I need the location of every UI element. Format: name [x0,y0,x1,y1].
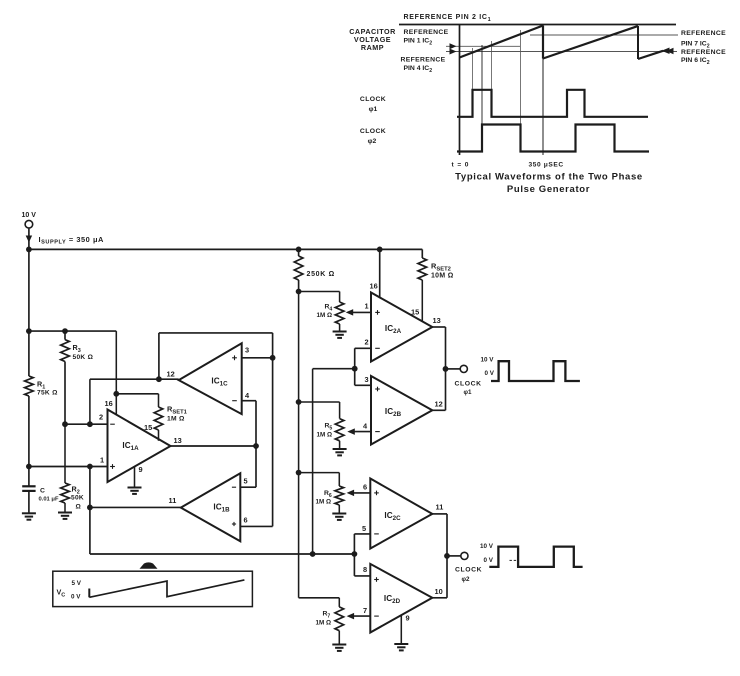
resistor R2 [61,424,70,512]
wire: IC1C feedback top line [159,333,273,379]
wire: bias chain vertical [298,292,300,598]
wire: marker vertical at phi1 rise [472,48,474,117]
label pin 11 of IC2C [436,503,444,512]
svg-text:12: 12 [167,370,175,379]
capacitor voltage ramp trace [460,26,670,60]
terminal: CLOCK phi1 output [460,365,467,372]
plus mark IC2D [374,577,379,582]
minus mark IC2A [375,347,380,349]
wire: ramp bus vertical (pin1 to pin11 to feedback) [89,467,91,555]
svg-text:75K Ω: 75K Ω [37,390,58,397]
resistor R1 [25,376,34,396]
wire: pin 1 line [29,466,108,468]
svg-text:REFERENCE: REFERENCE [401,57,446,64]
label pin 15 of IC2A [411,308,419,317]
ground below R4 [333,332,347,338]
label pin 12 of IC2B [435,400,443,409]
op-amp IC2A [371,293,432,362]
plus mark IC2B [375,387,380,392]
wire: pin 5 line [240,486,256,488]
label 10 V / 0 V (phi2) [480,543,494,564]
svg-text:φ1: φ1 [369,106,378,113]
clock phi1 waveform trace [457,90,648,117]
op-amp IC1A [108,410,171,483]
label IC1A [122,441,139,452]
label CAPACITOR VOLTAGE RAMP [349,27,396,52]
capacitor C [22,486,35,513]
junction: pin1 line at left rail [26,464,32,470]
svg-text:10 V: 10 V [22,212,37,219]
label 0 V [71,594,81,601]
svg-text:3: 3 [245,346,249,355]
label pin 13 of IC1A [174,436,182,445]
op-amp IC1B [181,473,241,541]
svg-text:1: 1 [100,456,104,465]
svg-text:t = 0: t = 0 [452,162,470,169]
plus mark IC2A [375,310,380,315]
wire: R4 top line [299,291,340,293]
node: reference pin 1 IC2 level line with arrow [446,43,520,49]
label pin 5 of IC1B [244,477,248,486]
minus mark IC2B [375,431,380,433]
label VC [57,588,66,599]
wire: pin12 net down to pin2 line [89,379,91,424]
label CLOCK phi1 [455,381,482,397]
svg-text:6: 6 [244,516,248,525]
svg-text:0 V: 0 V [485,370,495,377]
wire: pin 6 line [240,525,272,527]
wire: pin 10 output of IC2D [432,597,447,599]
wire: phi2 terminal stub [447,555,461,557]
wire: pin 8 line of IC2D [354,554,370,576]
wire: pin 11 input line [90,506,181,508]
label 10 V / 0 V (phi1) [481,357,495,378]
label CLOCK phi2 [455,567,482,584]
resistor RSET1 [154,394,163,441]
wire: pin 1 wiper arrow of R4 [346,309,371,316]
svg-text:5 V: 5 V [72,580,82,587]
svg-text:9: 9 [406,614,410,623]
junction on rail at 250K [296,247,302,253]
label pin 13 of IC2A [433,316,441,325]
junction: pin 11 tie [87,505,93,511]
resistor R4 [335,292,344,332]
label R7 1M [316,611,332,627]
wire: pin 6 wiper arrow of R6 [347,490,371,497]
junction on rail at left column [26,247,32,253]
label REFERENCE PIN 2 IC1 [404,14,492,23]
label R3 50K [73,343,94,361]
node: 0V level dash (phi2 sketch) [510,559,518,561]
wire: marker vertical at phi2 rise [481,45,483,152]
wire: pin 3 output [242,357,273,359]
svg-text:1: 1 [365,302,369,311]
terminal: 10V input [25,220,33,228]
label REFERENCE PIN 6 IC2 [681,49,726,66]
ground below R2 [58,513,72,519]
node: reference pin 7 IC2 level line [530,34,678,36]
svg-text:12: 12 [435,400,443,409]
wire: R5 top line [299,401,340,403]
svg-text:φ1: φ1 [464,389,473,396]
resistor R7 [335,598,344,645]
junction: R6 tap [296,470,302,476]
wire: phi1 output column [445,327,447,410]
wire: pin 4 line [242,401,256,488]
arrow marker pointing up at ramp bus [140,562,158,568]
svg-text:1M Ω: 1M Ω [317,432,333,439]
op-amp IC2C [370,479,432,549]
wire: R3 node line [29,330,116,332]
label t = 0 [452,162,470,169]
wire: pin 2 line [65,423,108,425]
label IC2C [384,511,401,522]
wire: phi1 terminal stub [446,368,461,370]
wire: pin 9 stub [134,466,136,487]
label CLOCK phi2 (waveform) [360,128,386,145]
plus mark IC2C [374,491,379,496]
label pin 7 of IC2D [363,606,367,615]
junction: phi1 output node [443,366,449,372]
svg-text:0.01 μF: 0.01 μF [39,497,59,503]
svg-text:50K: 50K [71,495,84,502]
junction: R3 bottom / pin2 [62,421,68,427]
ground below R5 [333,449,347,455]
svg-text:1M Ω: 1M Ω [317,312,333,319]
wire: pins 2-3 node to bus [313,369,355,554]
clock phi2 waveform trace [457,125,649,152]
svg-text:CLOCK: CLOCK [455,381,482,388]
junction: phi2 output node [444,553,450,559]
svg-text:11: 11 [169,496,177,505]
clock phi1 output mini waveform [491,361,580,381]
svg-text:2: 2 [365,338,369,347]
label CLOCK phi1 (waveform) [360,96,386,113]
label R6 1M [316,490,332,506]
svg-text:1M Ω: 1M Ω [316,620,332,627]
ground at IC1A pin 9 [128,488,142,494]
label R2 50K [71,485,84,511]
label pin 12 of IC1C [167,370,175,379]
svg-text:0 V: 0 V [71,594,81,601]
plus mark IC1A [110,464,115,469]
resistor R3 [61,331,70,424]
label IC2D [384,594,401,605]
label pin 9 of IC2D [406,614,410,623]
wire: pin 3 line of IC2B [355,384,371,386]
svg-text:6: 6 [363,483,367,492]
wire: t=0 marker vertical [459,25,461,156]
svg-text:Pulse Generator: Pulse Generator [507,184,590,195]
wire: pin 13 output of IC2A [432,326,445,328]
junction: R5 tap [296,399,302,405]
clock phi2 output mini waveform [489,547,582,567]
resistor R6 [335,473,344,514]
svg-text:11: 11 [436,503,444,512]
svg-text:0 V: 0 V [484,557,494,564]
svg-text:10 V: 10 V [481,357,495,364]
svg-text:2: 2 [99,413,103,422]
ground below C [22,513,36,519]
label pin 1 of IC2A [365,302,369,311]
svg-text:REFERENCE: REFERENCE [681,49,726,56]
node: reference pin 4 / pin 6 IC2 level line with arrows [446,48,677,55]
label REFERENCE PIN 1 IC2 [404,29,449,46]
label pin 4 of IC2B [363,422,368,431]
wire: R3 node down-leg crossing pin12 line [115,331,117,394]
svg-text:16: 16 [370,282,378,291]
wire: marker vertical at phi2 fall [520,30,522,152]
label 5 V [72,580,82,587]
wire: pin 4 wiper arrow of R5 [347,428,371,435]
wire: pin 11 output of IC2C [432,513,447,515]
label REFERENCE PIN 4 IC2 [401,57,446,74]
svg-text:16: 16 [105,399,113,408]
label pin 8 of IC2D [363,565,367,574]
svg-text:7: 7 [363,606,367,615]
junction: pin4/pin13/pin5 tie [253,443,259,449]
ground below R7 [332,645,346,651]
wire: pin 2 line of IC2A [355,347,371,349]
resistor R5 [335,402,344,449]
svg-text:5: 5 [244,477,248,486]
op-amp IC2B [371,376,432,445]
svg-text:8: 8 [363,565,367,574]
box: VC waveform inset [53,571,253,606]
junction: bus to pins 5-8 [352,551,358,557]
svg-text:φ2: φ2 [368,138,377,145]
label pin 5 of IC2C [362,524,366,533]
wire: R1 to C node [28,396,30,486]
ground at IC2D pin 9 [394,644,408,650]
svg-text:13: 13 [174,436,182,445]
wire: marker vertical at phi1 fall [491,41,493,117]
label pin 2 of IC1A [99,413,103,422]
minus mark IC2D [374,615,379,617]
wire: phi2 output column [446,514,448,598]
junction: pin2/pin12 tie [87,421,93,427]
svg-text:13: 13 [433,316,441,325]
minus mark IC1A [110,423,115,425]
label IC2A [385,324,402,335]
label pin 11 of IC1B [169,496,177,505]
svg-text:CLOCK: CLOCK [360,96,386,103]
label pin 6 of IC1B [244,516,248,525]
junction: bus tie at feedback line [310,551,316,557]
junction: R3/IC1C node on left rail [26,328,32,334]
VC sawtooth trace [89,580,244,597]
svg-text:Typical Waveforms of the Two P: Typical Waveforms of the Two Phase [455,172,643,183]
svg-text:1M Ω: 1M Ω [316,499,332,506]
label 10 V [22,212,37,219]
label pin 4 of IC1C [245,391,250,400]
label pin 2 of IC2A [365,338,369,347]
plus mark IC1B [232,522,236,526]
label 250K [307,271,336,278]
label C 0.01uF [39,488,59,503]
label REFERENCE PIN 7 IC2 [681,30,726,49]
svg-text:φ2: φ2 [462,576,471,583]
svg-text:REFERENCE: REFERENCE [681,30,726,37]
wire: pin 13 output line [171,445,257,447]
wire: pin 12 input line [90,378,179,380]
junction: R4 tap [296,289,302,295]
label R1 75K [37,380,58,397]
svg-text:350 μSEC: 350 μSEC [529,162,564,169]
wire: pin 16 stub into IC1A [115,394,117,415]
label pin 6 of IC2C [363,483,367,492]
wire: pin3 column (feedback / pin6 tie) [272,333,274,527]
svg-text:9: 9 [139,465,143,474]
svg-text:250K Ω: 250K Ω [307,271,336,278]
label pin 3 of IC1C [245,346,249,355]
svg-text:Ω: Ω [76,504,82,511]
svg-text:5: 5 [362,524,366,533]
label pin 3 of IC2B [365,375,369,384]
label IC2B [385,407,402,418]
wire: R6 top line [299,472,340,474]
label pin 16 of IC1A [105,399,113,408]
junction: feedback to pin 12 [156,376,162,382]
minus mark IC2C [374,533,379,535]
junction on rail at IC2A pin16 [377,247,383,253]
wire: pin16/RSET1 top line [116,393,158,395]
label 350 uSEC [529,162,564,169]
junction: pin16 node [113,391,119,397]
junction: pins 2-3 node [352,366,358,372]
svg-text:CLOCK: CLOCK [455,567,482,574]
label pin 10 of IC2D [435,587,443,596]
terminal: CLOCK phi2 output [461,552,468,559]
wire: +10V supply rail [29,248,422,250]
junction: pin1 / ramp bus [87,464,93,470]
op-amp IC1C [179,343,242,414]
svg-text:10M Ω: 10M Ω [431,273,454,280]
wire: 350usec marker vertical [542,26,544,156]
wire: pin 9 stub of IC2D [400,615,402,644]
svg-text:RAMP: RAMP [361,43,384,52]
label IC1C [211,377,228,388]
svg-text:1M Ω: 1M Ω [167,416,185,423]
svg-text:10: 10 [435,587,443,596]
label pin 16 of IC2A [370,282,378,291]
wire: left rail down to R1 [28,249,30,376]
plus mark IC1C [232,355,237,360]
wire: pin 12 output of IC2B [432,409,445,411]
label IC1B [213,503,230,514]
label R5 1M [317,423,333,439]
title: Pulse Generator [507,184,590,195]
wire: pins 2-3 tie [354,348,356,385]
svg-text:CLOCK: CLOCK [360,128,386,135]
svg-text:3: 3 [365,375,369,384]
svg-text:10 V: 10 V [480,543,494,550]
wire: 10V terminal to rail with current arrow [26,228,33,249]
label RSET1 1M [167,405,188,423]
label pin 9 of IC1A [139,465,143,474]
svg-text:REFERENCE: REFERENCE [404,29,449,36]
label RSET2 10M [431,262,454,280]
junction: pin 3 node [270,355,276,361]
junction: R3 top [62,328,68,334]
resistor 250K [294,249,303,291]
wire: R7 top line [299,597,340,599]
resistor RSET2 [418,249,427,321]
node: REFERENCE PIN 2 IC1 level line [399,24,676,26]
minus mark IC1C [232,400,237,402]
minus mark IC1B [232,486,236,488]
ground below R6 [332,514,346,520]
wire: pin 16 stub from rail [379,249,381,298]
wire: ramp bus bottom feedback line [90,553,355,555]
svg-text:C: C [40,488,45,495]
label R4 1M [317,304,333,320]
svg-text:50K Ω: 50K Ω [73,354,94,361]
title: Typical Waveforms of the Two Phase [455,172,643,183]
label ISUPPLY = 350 uA [39,235,105,246]
wire: pin 5 line of IC2C [354,534,370,554]
wire: pin 7 wiper arrow of R7 [347,613,371,620]
label pin 15 of IC1A [144,423,152,432]
label pin 1 of IC1A [100,456,104,465]
op-amp IC2D [370,564,432,633]
